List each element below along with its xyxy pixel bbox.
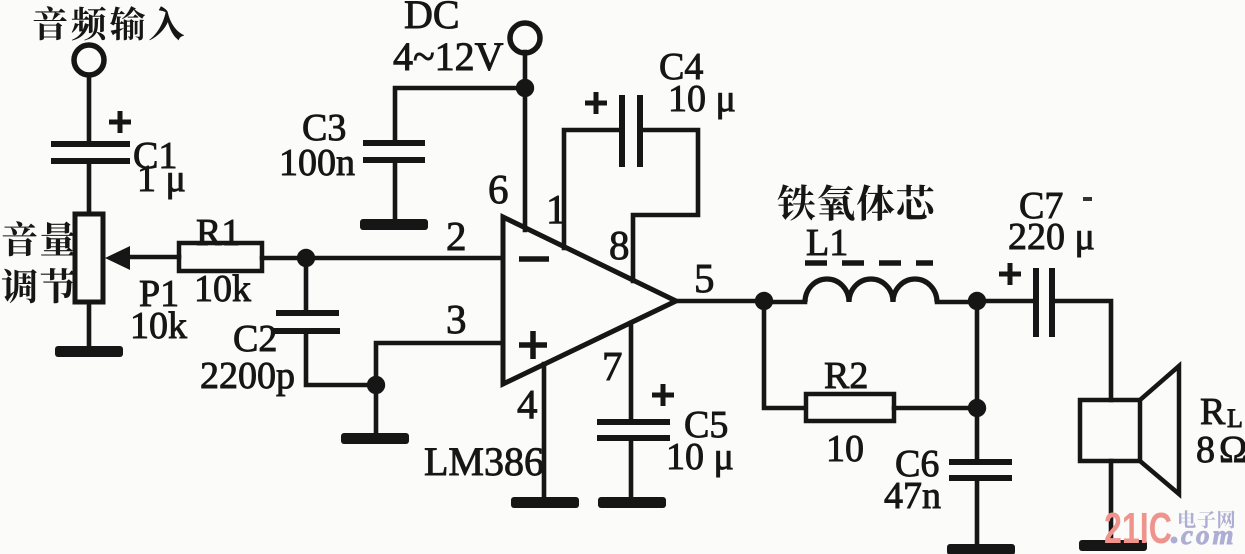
svg-text:DC: DC	[404, 0, 460, 37]
wire node to ground	[374, 385, 379, 434]
svg-text:10: 10	[826, 428, 864, 470]
svg-text:10 μ: 10 μ	[668, 78, 736, 120]
label audio-input (Chinese)	[34, 6, 67, 40]
terminal DC supply	[510, 23, 540, 53]
svg-text:com: com	[1181, 520, 1237, 550]
capacitor C2	[274, 313, 340, 331]
node R1/C2 junction	[297, 249, 315, 267]
svg-text:R2: R2	[824, 355, 868, 397]
capacitor C7	[1036, 268, 1052, 337]
wire wiper to R1	[128, 255, 179, 260]
wire P1 to ground	[87, 302, 92, 347]
svg-text:2200p: 2200p	[200, 355, 295, 397]
capacitor C7 plus sign	[999, 263, 1021, 285]
op-amp plus input sign	[519, 331, 547, 359]
wire pin1 up to C4	[564, 130, 618, 248]
node C2/pin3/ground junction	[367, 376, 385, 394]
svg-text:10k: 10k	[130, 305, 187, 347]
svg-text:4: 4	[517, 381, 538, 427]
capacitor C4 plus sign	[585, 92, 607, 114]
svg-text:C2: C2	[233, 318, 277, 360]
ground pin4	[511, 497, 579, 508]
svg-text:R1: R1	[196, 212, 240, 254]
wire C1 to P1	[87, 164, 92, 214]
node output junction	[755, 292, 773, 310]
svg-text:8: 8	[1196, 429, 1215, 471]
wire C7 to speaker	[1055, 301, 1111, 400]
svg-text:1 μ: 1 μ	[137, 158, 186, 200]
svg-text:3: 3	[446, 296, 467, 342]
wire node2 down through node3 to C6	[975, 301, 980, 460]
wire DC node to pin6	[523, 88, 528, 230]
wire C3 to ground	[393, 163, 398, 220]
svg-text:220 μ: 220 μ	[1008, 216, 1095, 258]
svg-text:Ω: Ω	[1219, 429, 1245, 471]
svg-text:7: 7	[602, 343, 623, 389]
wire R1 to pin2	[262, 256, 503, 261]
op-amp minus input sign	[519, 256, 549, 262]
node DC junction	[516, 79, 534, 97]
label volume-adjust (Chinese) row1	[3, 221, 37, 256]
wire speaker to ground	[1109, 461, 1114, 541]
ground speaker	[1079, 540, 1147, 551]
svg-text:8: 8	[609, 222, 630, 268]
op-amp U1 LM386 triangle	[503, 217, 676, 384]
capacitor C5 plus sign	[652, 384, 674, 406]
resistor R1 body	[179, 243, 262, 271]
watermark com	[1171, 537, 1178, 544]
svg-text:100n: 100n	[279, 142, 355, 184]
label volume-adjust (Chinese) row2	[2, 269, 37, 303]
potentiometer P1 body	[75, 214, 103, 302]
svg-text:10 μ: 10 μ	[666, 436, 734, 478]
capacitor C4	[622, 95, 640, 167]
ground C2 node	[341, 433, 409, 444]
node R2/C6 junction	[968, 399, 986, 417]
wire C5 to ground	[629, 441, 634, 498]
wire C2 to node	[306, 334, 376, 385]
svg-text:4~12V: 4~12V	[393, 34, 504, 79]
wire C6 to ground	[975, 481, 980, 545]
resistor R2 body	[806, 394, 894, 421]
speaker RL body	[1080, 400, 1140, 461]
ground C6	[947, 544, 1015, 554]
wire node down to R2	[764, 301, 804, 408]
wire node to L1	[764, 300, 805, 305]
terminal J1 audio input	[74, 45, 104, 75]
wire C4 to pin8	[633, 130, 698, 281]
svg-text:6: 6	[488, 166, 509, 212]
svg-text:5: 5	[694, 255, 715, 301]
wire DC terminal down	[523, 52, 528, 88]
wire J1 to C1	[87, 75, 92, 142]
capacitor C6	[949, 462, 1012, 478]
node L1/C7 junction	[968, 292, 986, 310]
svg-text:2: 2	[446, 213, 467, 259]
svg-text:10k: 10k	[194, 268, 251, 310]
svg-text:L1: L1	[806, 222, 848, 264]
capacitor C5	[597, 422, 670, 438]
wire R2 to node3	[894, 406, 977, 411]
speaker RL cone	[1140, 366, 1179, 494]
potentiometer P1 wiper arrow	[105, 246, 130, 270]
inductor L1 winding	[805, 279, 937, 302]
wire pin5 output	[676, 299, 764, 304]
wire node2 to C7	[977, 299, 1033, 304]
capacitor C3	[363, 143, 425, 160]
ground C5	[598, 497, 666, 508]
wire DC to C3	[395, 88, 525, 141]
capacitor C1 plus sign	[109, 111, 131, 133]
svg-text:21IC: 21IC	[1104, 504, 1172, 553]
svg-text:47n: 47n	[884, 475, 941, 517]
inductor L1 core dashes	[805, 260, 933, 266]
wire junction to C2	[304, 258, 309, 312]
ground P1	[55, 346, 123, 357]
wire node to pin3	[376, 343, 503, 385]
svg-text:LM386: LM386	[424, 439, 544, 484]
label ferrite-core (Chinese)	[778, 184, 816, 220]
stray mark near C7	[1083, 197, 1092, 201]
capacitor C1	[51, 144, 130, 161]
wire pin4 to ground	[542, 364, 547, 498]
watermark dianziwang (Chinese)	[1179, 510, 1196, 528]
wire pin7 to C5	[629, 323, 634, 420]
svg-text:R: R	[1200, 391, 1226, 433]
ground C3	[360, 219, 428, 230]
wire L1 to node2	[937, 300, 977, 305]
